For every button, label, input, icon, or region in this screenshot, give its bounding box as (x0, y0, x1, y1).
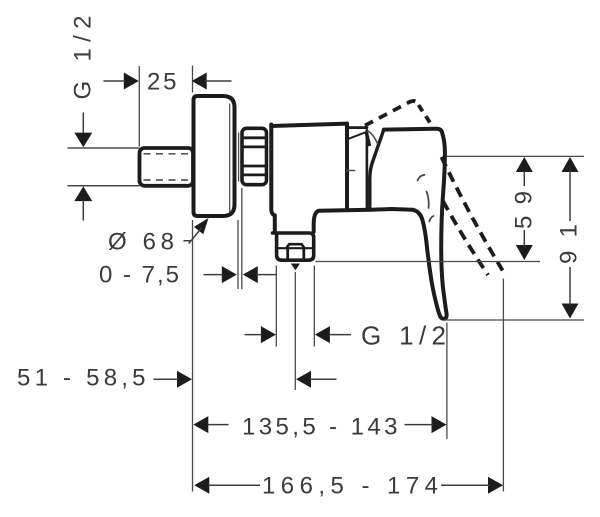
svg-text:51 - 58,5: 51 - 58,5 (17, 364, 146, 391)
svg-text:G 1/2: G 1/2 (70, 16, 97, 100)
svg-text:135,5 - 143: 135,5 - 143 (242, 414, 398, 441)
svg-text:166,5 - 174: 166,5 - 174 (262, 473, 438, 500)
svg-text:G 1/2: G 1/2 (361, 320, 446, 350)
svg-text:0 - 7,5: 0 - 7,5 (99, 261, 179, 288)
